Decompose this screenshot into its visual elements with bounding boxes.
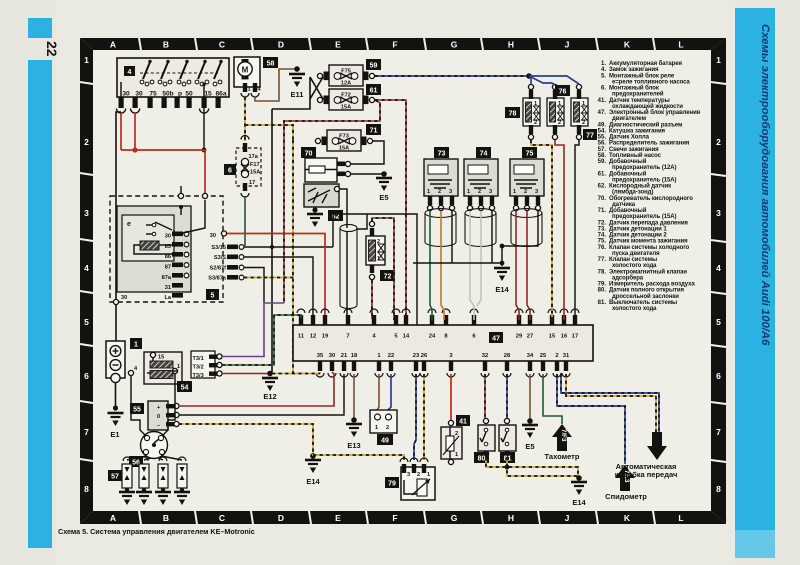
distributor label 56	[129, 456, 143, 467]
svg-text:57: 57	[111, 474, 119, 481]
svg-text:предохранителей: предохранителей	[612, 91, 664, 98]
svg-text:79.: 79.	[598, 282, 607, 288]
svg-text:34: 34	[527, 353, 534, 359]
svg-text:86a: 86a	[215, 91, 226, 98]
battery label 1	[130, 338, 142, 349]
throttle switch 80	[483, 418, 488, 423]
svg-text:80: 80	[478, 456, 486, 463]
svg-text:E14: E14	[572, 498, 586, 507]
knock sensor 74 box	[464, 159, 498, 196]
svg-text:1: 1	[377, 256, 380, 262]
plug grounds	[125, 488, 129, 492]
wire relay30 red bus to pin19	[227, 234, 325, 321]
svg-text:2: 2	[478, 189, 481, 195]
svg-text:A: A	[110, 40, 116, 50]
svg-text:59.: 59.	[598, 159, 607, 165]
pressure sensor 72 box	[366, 236, 385, 265]
node E14 left	[310, 453, 316, 459]
svg-text:54: 54	[181, 385, 189, 392]
svg-text:La: La	[164, 295, 171, 301]
svg-text:M: M	[242, 66, 249, 75]
wire coil1 to distributor	[162, 374, 175, 436]
svg-text:Диагностический разъем: Диагностический разъем	[609, 121, 683, 128]
fuse F72 label 61	[366, 84, 381, 95]
coil label 54	[177, 381, 192, 392]
svg-text:датчика: датчика	[612, 202, 636, 208]
fuse F72 15A box	[329, 89, 363, 110]
wire T3/2 green-dash to pin11	[222, 315, 301, 365]
fuse block 6 F17 dashed	[236, 148, 261, 186]
svg-text:C: C	[219, 40, 225, 50]
svg-text:Автоматическаякоробка передач: Автоматическаякоробка передач	[615, 462, 678, 479]
svg-text:30: 30	[329, 353, 335, 359]
wire pump4 brown to E11	[255, 69, 295, 101]
svg-text:e: e	[127, 221, 131, 228]
svg-text:Аккумуляторная батарея: Аккумуляторная батарея	[609, 60, 682, 67]
svg-text:F: F	[392, 513, 397, 523]
svg-text:30: 30	[121, 295, 127, 301]
svg-text:Монтажный блок реле: Монтажный блок реле	[609, 72, 675, 79]
spark plugs 57	[122, 464, 187, 488]
svg-text:2: 2	[524, 189, 527, 195]
wire yellow branch to F73	[245, 125, 293, 140]
diag label 49	[377, 434, 393, 445]
valve 76 label	[555, 85, 570, 96]
svg-text:30: 30	[165, 234, 171, 240]
svg-text:1: 1	[558, 101, 561, 107]
svg-text:L: L	[678, 40, 683, 50]
svg-text:77.: 77.	[598, 257, 607, 263]
idle switch 81	[504, 418, 509, 423]
timing sensor 75 box	[510, 159, 544, 196]
svg-text:J: J	[565, 40, 570, 50]
svg-text:86: 86	[165, 254, 171, 260]
ECU bottom pins	[318, 361, 568, 371]
lambda shield cylinder	[340, 224, 357, 308]
fuel pump label 58	[263, 57, 278, 68]
fuel pump relay e box	[122, 215, 174, 261]
svg-text:31: 31	[563, 353, 570, 359]
svg-text:87: 87	[165, 265, 171, 271]
frame gaps top	[80, 38, 726, 524]
ghost bleed-through shapes	[95, 60, 693, 500]
svg-text:1: 1	[716, 55, 721, 65]
svg-text:26: 26	[421, 353, 428, 359]
ground E14 mid	[494, 268, 510, 281]
relay block 5 dashed box	[110, 196, 223, 302]
svg-text:18: 18	[351, 353, 358, 359]
node E13	[351, 417, 357, 423]
relay terminals left column	[172, 232, 183, 298]
gearbox arrow	[647, 432, 667, 460]
svg-text:E5: E5	[525, 442, 534, 451]
wire 78 yellow to pin15	[531, 140, 552, 320]
svg-text:58.: 58.	[598, 153, 607, 159]
wire lambda in-shield down to pin7	[347, 231, 348, 322]
svg-text:27: 27	[527, 334, 533, 340]
svg-text:Датчик момента зажигания: Датчик момента зажигания	[609, 239, 688, 245]
wire pin31 yellow to gearbox	[566, 374, 656, 432]
node 15 junction	[202, 148, 207, 153]
svg-text:15: 15	[204, 91, 212, 98]
svg-text:30: 30	[135, 91, 143, 98]
frame top bar	[80, 38, 726, 50]
svg-text:5.: 5.	[601, 73, 606, 79]
svg-text:57.: 57.	[598, 147, 607, 153]
node E12	[267, 371, 273, 377]
svg-text:1: 1	[513, 189, 516, 195]
diagram paper	[93, 50, 711, 511]
svg-text:Замок зажигания: Замок зажигания	[609, 67, 659, 73]
svg-text:4: 4	[128, 69, 132, 76]
wire pin22 blue to diag	[388, 374, 391, 410]
relay internal links	[134, 200, 205, 254]
svg-text:50b: 50b	[162, 91, 173, 98]
wire 76 maroon to pin16	[555, 140, 564, 320]
shield rail to E14	[413, 246, 502, 266]
wire battery top	[115, 305, 117, 341]
fuse F75 label 59	[366, 59, 381, 70]
canister valve 78	[523, 98, 540, 126]
wire S3/87a yellow	[244, 277, 293, 279]
svg-text:1: 1	[427, 189, 430, 195]
shield cylinder 74	[465, 209, 496, 247]
relay block label 5	[206, 289, 219, 300]
fuse F75 12A box	[329, 65, 363, 86]
ground E14 left	[305, 460, 321, 473]
svg-text:предохранитель (12А): предохранитель (12А)	[612, 165, 677, 171]
label 73	[434, 147, 449, 158]
svg-text:Датчик Холла: Датчик Холла	[609, 135, 650, 141]
svg-text:1: 1	[534, 101, 537, 107]
svg-text:1: 1	[177, 364, 180, 370]
ignition switch contacts	[148, 60, 222, 63]
svg-text:12A: 12A	[341, 81, 351, 87]
svg-text:2: 2	[534, 120, 537, 126]
svg-text:75: 75	[149, 91, 157, 98]
node E5	[381, 171, 387, 177]
ECU top pins	[299, 315, 577, 325]
svg-text:76: 76	[559, 89, 567, 96]
svg-text:1: 1	[582, 101, 585, 107]
svg-text:охлаждающей жидкости: охлаждающей жидкости	[612, 103, 683, 110]
lambda label 62	[328, 210, 343, 221]
svg-text:E13: E13	[347, 441, 360, 450]
svg-text:2: 2	[558, 120, 561, 126]
svg-text:B: B	[163, 513, 169, 523]
svg-text:7: 7	[346, 334, 349, 340]
switch 80 label	[474, 452, 489, 463]
svg-text:пуска двигателя: пуска двигателя	[612, 251, 660, 257]
svg-text:29: 29	[516, 334, 523, 340]
svg-text:61.: 61.	[598, 171, 607, 177]
svg-text:5: 5	[84, 317, 89, 327]
svg-text:6: 6	[228, 168, 232, 175]
svg-text:Клапан системы холодного: Клапан системы холодного	[609, 245, 690, 251]
relay top connector circles	[178, 193, 183, 198]
wire pump1 yellow down to F17	[244, 97, 246, 141]
fuse block label 6	[224, 164, 236, 175]
svg-text:5: 5	[716, 317, 721, 327]
svg-text:Электронный блок управления: Электронный блок управления	[609, 109, 701, 116]
left cyan page bar	[28, 18, 52, 38]
ignition switch 4 box	[117, 58, 229, 97]
svg-text:Датчик детонации 2: Датчик детонации 2	[609, 233, 667, 239]
node valve feed	[526, 73, 532, 79]
fuel pump terminals 1 4	[243, 83, 247, 92]
svg-text:30: 30	[210, 233, 216, 239]
temp sensor 41	[448, 420, 453, 425]
wire pin32 to switch 80	[484, 374, 486, 418]
svg-text:S3/15: S3/15	[211, 245, 226, 251]
svg-text:4: 4	[84, 263, 89, 273]
wire navy feed branches	[529, 76, 579, 85]
svg-text:74.: 74.	[598, 233, 607, 239]
svg-text:78: 78	[509, 111, 517, 118]
plug label 57	[108, 470, 122, 481]
svg-text:дроссельной заслонки: дроссельной заслонки	[612, 293, 679, 300]
svg-text:E: E	[335, 40, 341, 50]
svg-text:6: 6	[84, 371, 89, 381]
ground E11	[289, 74, 305, 87]
svg-text:75: 75	[526, 151, 534, 158]
wires distributor to plugs	[127, 456, 182, 460]
frame bottom bar	[80, 511, 726, 524]
airflow meter 79	[401, 467, 435, 500]
svg-text:25: 25	[540, 353, 547, 359]
fuel pump motor symbol	[238, 62, 252, 76]
svg-text:–: –	[157, 423, 160, 429]
wire pin34 brown to E5 right	[529, 374, 531, 419]
column letters bottom	[110, 513, 684, 523]
svg-text:8: 8	[716, 484, 721, 494]
ground E5 right	[522, 425, 538, 438]
svg-text:70.: 70.	[598, 196, 607, 202]
svg-text:Свечи зажигания: Свечи зажигания	[609, 147, 659, 153]
wire pin26 yellow-dash to airflow	[423, 374, 425, 460]
svg-text:71: 71	[370, 128, 378, 135]
svg-text:S3/S: S3/S	[214, 255, 226, 261]
svg-text:2: 2	[417, 472, 420, 478]
wire battery to E1	[115, 382, 117, 407]
svg-text:S2/87f: S2/87f	[210, 266, 227, 272]
svg-text:3: 3	[449, 189, 452, 195]
svg-text:Схема 5. Система управления дв: Схема 5. Система управления двигателем K…	[58, 527, 255, 536]
wire F75 navy to valves	[375, 75, 529, 77]
node E5 right	[527, 418, 533, 424]
svg-text:Датчик температуры: Датчик температуры	[609, 98, 670, 104]
svg-text:11: 11	[298, 334, 305, 340]
shield cylinder 73	[425, 209, 456, 247]
svg-text:30: 30	[122, 91, 130, 98]
svg-text:17: 17	[572, 334, 578, 340]
valve 77 label	[583, 129, 597, 140]
wire knock1 shield	[451, 211, 453, 263]
svg-text:4: 4	[716, 263, 721, 273]
fuel pump M box 58	[234, 57, 260, 87]
svg-text:1: 1	[427, 472, 430, 478]
temp label 41	[456, 415, 470, 426]
svg-text:Катушка зажигания: Катушка зажигания	[609, 128, 666, 134]
svg-text:1: 1	[455, 452, 458, 458]
svg-text:22: 22	[388, 353, 394, 359]
wire E12 yellow to pin35	[272, 372, 320, 374]
svg-text:17a: 17a	[249, 154, 259, 160]
svg-text:62.: 62.	[598, 184, 607, 190]
svg-text:L: L	[678, 513, 683, 523]
svg-text:Добавочный: Добавочный	[609, 207, 647, 214]
wire timing shield	[502, 211, 538, 246]
ground E14 right	[571, 482, 587, 495]
svg-text:21: 21	[341, 353, 348, 359]
wire pin2 blue to speedometer	[557, 374, 625, 464]
svg-text:Распределитель зажигания: Распределитель зажигания	[609, 141, 690, 147]
svg-text:G: G	[451, 513, 458, 523]
fuse F73 15A box	[327, 130, 361, 151]
svg-text:3: 3	[716, 208, 721, 218]
svg-text:предохранитель (15А): предохранитель (15А)	[612, 177, 677, 183]
svg-text:41: 41	[459, 419, 467, 426]
svg-text:6: 6	[716, 371, 721, 381]
svg-text:p: p	[178, 91, 182, 98]
legend list	[598, 60, 701, 312]
svg-text:14: 14	[403, 334, 410, 340]
svg-text:E11: E11	[291, 90, 304, 99]
svg-text:Схемы электрооборудования авто: Схемы электрооборудования автомобилей Au…	[759, 24, 771, 346]
svg-text:1: 1	[84, 55, 89, 65]
svg-text:F17: F17	[250, 162, 260, 168]
wire switch 30 red down	[120, 113, 122, 150]
knock sensor 73 box	[424, 159, 458, 196]
svg-text:B: B	[163, 40, 169, 50]
svg-text:E1: E1	[110, 430, 119, 439]
svg-text:35: 35	[317, 353, 324, 359]
svg-text:Монтажный блок: Монтажный блок	[609, 85, 659, 92]
frame left column	[80, 38, 93, 524]
wire relay top stub	[180, 186, 182, 194]
svg-text:12: 12	[310, 334, 316, 340]
valve 78 label	[505, 107, 520, 118]
svg-text:56.: 56.	[598, 141, 607, 147]
wire timing maroon2 to pin27	[527, 211, 530, 320]
wire red to relay top	[121, 150, 205, 194]
wire knock2 shield	[491, 211, 493, 263]
svg-text:двигателем: двигателем	[612, 116, 647, 122]
wire 80 yellow to E14 right	[486, 457, 578, 477]
svg-text:Обогреватель кислородного: Обогреватель кислородного	[609, 195, 693, 202]
ECU box 47	[293, 325, 593, 361]
svg-text:1: 1	[248, 87, 251, 93]
svg-text:D: D	[278, 513, 284, 523]
wire switch 15 black down	[203, 108, 205, 150]
relay output terminals S column	[227, 245, 238, 280]
svg-text:F: F	[392, 40, 397, 50]
node E1	[113, 405, 118, 410]
svg-text:3: 3	[489, 189, 492, 195]
wire F72 red-dash to pin14	[375, 100, 406, 320]
svg-text:E14: E14	[306, 477, 320, 486]
svg-text:5: 5	[211, 293, 215, 300]
svg-text:H: H	[508, 40, 514, 50]
svg-text:6.: 6.	[601, 86, 606, 92]
wire 81 yellow to E14 right	[507, 457, 578, 476]
lambda ground	[314, 207, 316, 210]
wire pin18 brown to E13	[353, 374, 355, 418]
svg-text:Спидометр: Спидометр	[605, 492, 647, 501]
svg-text:15A: 15A	[250, 170, 260, 176]
svg-text:76.: 76.	[598, 245, 607, 251]
wire knock1 orange to pin8	[441, 211, 444, 320]
node S315	[270, 245, 274, 249]
fuse F73 label 71	[366, 124, 381, 135]
svg-text:71.: 71.	[598, 208, 607, 214]
wire heater to E5	[351, 173, 384, 175]
svg-text:77: 77	[586, 133, 594, 140]
relay inner box	[117, 206, 191, 292]
svg-text:2: 2	[438, 189, 441, 195]
wire knock1 green to pin24	[430, 211, 432, 320]
row numbers left	[84, 55, 89, 494]
label 74	[476, 147, 491, 158]
T3 connector box	[191, 351, 215, 378]
switch 81 label	[500, 452, 515, 463]
svg-text:49.: 49.	[598, 122, 607, 128]
svg-text:2: 2	[386, 425, 389, 431]
svg-text:E5: E5	[379, 193, 388, 202]
svg-text:28: 28	[504, 353, 511, 359]
wire 72 t2 red-dash to pin5	[372, 218, 394, 320]
svg-text:E: E	[335, 513, 341, 523]
svg-text:J: J	[565, 513, 570, 523]
switch terminals	[119, 97, 221, 108]
frame right column	[711, 38, 726, 524]
node relay junction	[179, 205, 183, 209]
svg-text:58: 58	[267, 61, 275, 68]
idle valve 77	[571, 98, 588, 126]
wire S3/15 to fuse feed	[244, 243, 333, 247]
svg-text:4.: 4.	[601, 67, 606, 73]
spark plug arcs	[123, 457, 186, 461]
svg-text:22: 22	[44, 41, 60, 57]
speedometer arrow 7/L3	[615, 465, 635, 491]
svg-text:78.: 78.	[598, 269, 607, 275]
svg-text:3: 3	[535, 189, 538, 195]
svg-text:7: 7	[716, 427, 721, 437]
hall sensor 55 box	[148, 401, 168, 430]
ignition coil 54 box	[144, 352, 182, 384]
svg-text:70: 70	[305, 151, 313, 158]
switch internal links	[121, 82, 204, 97]
svg-text:1: 1	[134, 342, 138, 349]
airflow label 79	[385, 477, 399, 488]
svg-text:15: 15	[158, 355, 164, 361]
heater box 70	[305, 158, 337, 182]
node shield E14	[500, 244, 505, 249]
wire T3/1 violet	[222, 303, 284, 357]
svg-text:75.: 75.	[598, 239, 607, 245]
svg-text:79: 79	[388, 481, 396, 488]
wire lambda signal into shield	[340, 189, 347, 228]
svg-text:47: 47	[492, 336, 500, 343]
wire switch 30b red down	[134, 113, 136, 150]
svg-text:холостого хода: холостого хода	[612, 306, 657, 312]
relay 30 output circle	[221, 231, 226, 236]
svg-text:47.: 47.	[598, 110, 607, 116]
svg-text:1: 1	[375, 425, 378, 431]
svg-text:Датчик детонации 1: Датчик детонации 1	[609, 226, 667, 232]
svg-text:7: 7	[84, 427, 89, 437]
svg-text:17: 17	[249, 180, 255, 186]
